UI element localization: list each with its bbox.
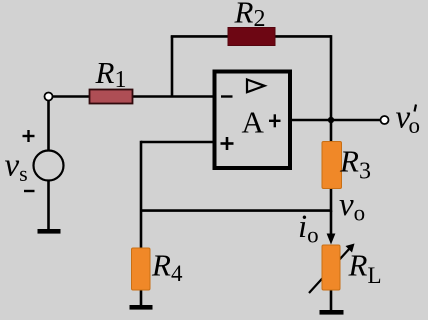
- resistor RL (variable) diagonal arrow line: [309, 248, 350, 293]
- wire: feedback top horizontal through R2: [171, 35, 331, 38]
- resistor RL arrowhead: [346, 244, 355, 253]
- wire: op-amp non-inverting input horizontal: [141, 141, 215, 144]
- source vs (circle): [34, 151, 64, 181]
- resistor R2 (feedback): [228, 28, 275, 46]
- arrowhead io current arrow: [327, 234, 336, 245]
- resistor R1: [90, 90, 133, 104]
- svg-text:A: A: [242, 105, 265, 140]
- resistor R3: [322, 142, 342, 189]
- node: output junction dot: [328, 117, 334, 123]
- op-amp output plus sign: [269, 120, 281, 122]
- wire: feedback vertical down to output node: [330, 35, 333, 121]
- wire: source top to input terminal: [47, 100, 50, 151]
- wire: R1 to op-amp inverting input: [132, 95, 215, 98]
- op-amp U1 box: [215, 72, 291, 169]
- input terminal (open circle): [45, 93, 53, 101]
- label - polarity of source: [24, 190, 35, 192]
- wire: output node down to R3: [330, 119, 333, 143]
- wire: RL bottom to ground: [330, 289, 333, 311]
- wire: feedback vertical up from node A: [171, 36, 174, 97]
- output terminal (open circle): [381, 116, 389, 124]
- wire: node vo down to RL with current arrow: [330, 211, 333, 238]
- wire: op-amp output to terminal: [291, 119, 381, 122]
- resistor R4: [132, 248, 151, 290]
- svg-text:o: o: [409, 113, 421, 138]
- wire: R3 to node vo: [330, 186, 333, 212]
- wire: source bottom to ground: [47, 180, 50, 230]
- op-amp plus input sign: [221, 142, 234, 145]
- ground (source): [38, 229, 61, 234]
- op-amp triangle symbol: [247, 80, 265, 93]
- wire: R4 to ground: [140, 289, 143, 306]
- ground (RL): [320, 310, 344, 315]
- wire: input terminal to R1: [52, 95, 90, 98]
- op-amp minus input sign: [221, 95, 233, 97]
- ground (R4): [130, 305, 153, 310]
- wire: horizontal from non-inverting branch to node vo: [141, 209, 332, 212]
- label + polarity of source: [23, 135, 35, 137]
- resistor RL body: [322, 245, 340, 290]
- wire: vertical down to R4: [140, 141, 143, 249]
